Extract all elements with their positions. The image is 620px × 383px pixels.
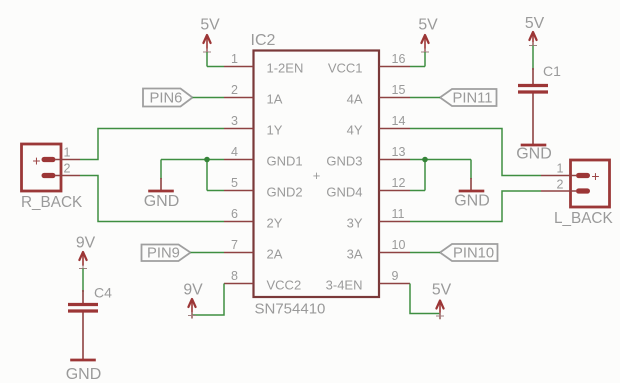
- svg-text:1Y: 1Y: [267, 123, 283, 138]
- svg-text:3A: 3A: [347, 247, 363, 262]
- svg-text:GND: GND: [516, 146, 552, 163]
- svg-text:GND3: GND3: [326, 154, 362, 169]
- svg-text:13: 13: [392, 145, 406, 159]
- svg-text:5V: 5V: [432, 282, 452, 299]
- svg-text:2: 2: [64, 162, 71, 176]
- svg-text:9: 9: [392, 269, 399, 283]
- svg-text:11: 11: [392, 207, 405, 221]
- svg-text:R_BACK: R_BACK: [21, 194, 83, 211]
- svg-text:PIN6: PIN6: [150, 91, 183, 107]
- svg-text:GND: GND: [454, 193, 490, 210]
- svg-text:3: 3: [231, 114, 238, 128]
- svg-text:1: 1: [557, 162, 564, 176]
- svg-text:4: 4: [231, 145, 238, 159]
- svg-text:PIN10: PIN10: [453, 246, 494, 262]
- svg-text:C4: C4: [94, 285, 112, 301]
- svg-text:+: +: [591, 168, 599, 184]
- svg-text:2: 2: [557, 178, 564, 192]
- svg-text:GND2: GND2: [267, 185, 303, 200]
- svg-text:+: +: [32, 153, 40, 169]
- svg-text:4A: 4A: [347, 92, 363, 107]
- svg-text:2Y: 2Y: [267, 216, 283, 231]
- svg-text:C1: C1: [543, 63, 561, 79]
- svg-text:1-2EN: 1-2EN: [267, 61, 304, 76]
- svg-text:GND: GND: [144, 193, 180, 210]
- svg-text:5V: 5V: [525, 15, 545, 32]
- svg-text:15: 15: [392, 83, 406, 97]
- svg-text:12: 12: [392, 176, 406, 190]
- svg-text:3-4EN: 3-4EN: [326, 278, 363, 293]
- svg-text:16: 16: [392, 52, 406, 66]
- svg-text:GND: GND: [66, 366, 102, 383]
- svg-text:1A: 1A: [267, 92, 283, 107]
- svg-text:10: 10: [392, 238, 406, 252]
- svg-text:1: 1: [231, 52, 238, 66]
- svg-text:5V: 5V: [418, 17, 438, 34]
- svg-text:GND1: GND1: [267, 154, 303, 169]
- svg-text:4Y: 4Y: [347, 123, 363, 138]
- svg-text:5: 5: [231, 176, 238, 190]
- svg-text:VCC2: VCC2: [267, 278, 302, 293]
- svg-text:8: 8: [231, 269, 238, 283]
- svg-text:2: 2: [231, 83, 238, 97]
- svg-text:14: 14: [392, 114, 406, 128]
- svg-text:+: +: [313, 168, 321, 183]
- svg-text:IC2: IC2: [251, 32, 276, 49]
- svg-text:7: 7: [231, 238, 238, 252]
- svg-text:L_BACK: L_BACK: [554, 210, 613, 227]
- svg-text:GND4: GND4: [326, 185, 362, 200]
- svg-text:SN754410: SN754410: [255, 301, 326, 318]
- svg-text:3Y: 3Y: [347, 216, 363, 231]
- svg-text:9V: 9V: [76, 235, 96, 252]
- svg-text:PIN11: PIN11: [453, 91, 493, 107]
- svg-text:6: 6: [231, 207, 238, 221]
- svg-text:2A: 2A: [267, 247, 283, 262]
- svg-text:PIN9: PIN9: [147, 246, 180, 262]
- svg-text:VCC1: VCC1: [328, 61, 363, 76]
- svg-text:9V: 9V: [183, 282, 203, 299]
- svg-text:5V: 5V: [200, 17, 220, 34]
- svg-text:1: 1: [64, 146, 71, 160]
